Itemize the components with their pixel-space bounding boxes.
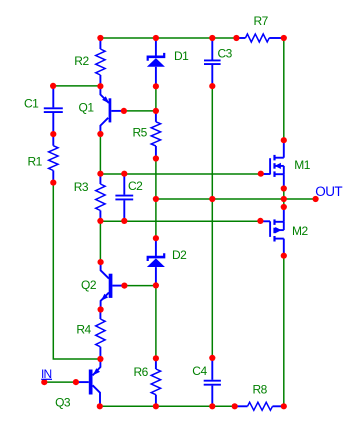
transistor Q3 (PNP, mirrored) [76,359,101,406]
node C2 top [121,171,127,177]
wire IN to Q3 base [44,381,76,383]
resistor R8 [235,405,248,407]
node R3 top [97,171,103,177]
wire C1 top to R2 bottom [53,85,100,87]
wire C3 bottom to C4 top [211,86,213,358]
svg-text:R8: R8 [253,383,268,397]
zener diode D1 [155,38,157,56]
node R8 left [232,403,238,409]
node OUT port [313,196,319,202]
node C1 top [50,83,56,89]
wire OUT rail [156,198,316,200]
MOSFET M2 (P-channel) [260,207,283,256]
node C3 bottom [209,83,215,89]
zener diode D2 [155,238,157,256]
svg-text:C3: C3 [218,47,233,61]
resistor R2 [99,38,101,49]
node C1 bottom / R1 top [50,131,56,137]
node C3 top [209,35,215,41]
svg-text:OUT: OUT [315,184,342,199]
node OUT rail at C column [209,196,215,202]
svg-text:D2: D2 [172,248,187,262]
wires group [44,38,315,406]
node Q3 collector [97,403,103,409]
MOSFET M1 (N-channel) [261,140,284,188]
node OUT rail at R5 column [153,196,159,202]
resistor R7 [236,37,245,39]
node M1 drain top [281,137,287,143]
transistor Q2 (NPN) [101,262,125,309]
node OUT rail at M column [281,196,287,202]
node C4 bottom [209,403,215,409]
resistor R4 [99,310,101,320]
resistor R6 [155,358,157,369]
resistor R3 [99,174,101,184]
svg-text:R7: R7 [254,14,269,28]
svg-text:M1: M1 [294,158,310,172]
svg-text:C2: C2 [128,179,143,193]
node D1 bottom [153,83,159,89]
svg-text:R1: R1 [28,155,43,169]
wire M1 source to M2 drain [283,189,285,208]
node R5 bottom [153,155,159,161]
capacitor C1 [52,86,54,108]
resistor R5 [155,111,157,122]
resistor R1 [52,134,54,146]
wire R1 bottom left branch down and right to R4 bottom [53,183,100,359]
node R6 top [153,355,159,361]
capacitor C2 [123,174,125,195]
wire R3 bottom to Q2 top [99,221,101,262]
node Q2 collector top [98,259,104,265]
wire M2 source down to R8 right [283,256,285,407]
capacitor C4 [211,358,213,380]
node M2 gate [257,218,263,224]
wire Q1 collector to R3 node [99,134,101,174]
svg-text:R5: R5 [133,126,148,140]
node R1 bottom [50,180,56,186]
node M2 drain [281,204,287,210]
node R7 right [281,35,287,41]
svg-text:R6: R6 [134,365,149,379]
svg-text:M2: M2 [292,224,308,238]
node D2 top [153,235,159,241]
svg-text:C4: C4 [192,364,207,378]
node D2 bottom [153,282,159,288]
node R3 bottom [97,218,103,224]
svg-text:R4: R4 [76,323,91,337]
capacitor C3 [211,38,213,60]
wire D1 bottom to R5 top [155,86,157,111]
wire bottom rail [100,405,235,407]
node M2 source [281,253,287,259]
wire R5 bottom down to OUT node [155,159,157,239]
svg-text:D1: D1 [174,49,189,63]
node Q2 base joint [121,283,127,289]
wire node173 horizontal to M1 gate [100,173,260,175]
node R6 bottom [153,403,159,409]
node R7 left [233,35,239,41]
wire top rail [100,37,236,39]
wire Q2 base to D2/R6 node [124,285,155,287]
node Q2 emitter / R4 top [98,306,104,312]
svg-text:Q3: Q3 [55,396,71,410]
transistor Q1 (PNP) [100,86,124,134]
node Q1 collector [97,131,103,137]
svg-text:R3: R3 [74,180,89,194]
wire R7 right down to M1 drain [283,38,285,140]
node IN port [41,379,47,385]
svg-text:C1: C1 [24,97,39,111]
wire node221 horizontal to M2 gate [100,220,260,222]
node R8 right [281,403,287,409]
node R2 top [97,35,103,41]
svg-text:R2: R2 [74,54,89,68]
node IN wire joint [73,379,79,385]
node C2 bottom [121,218,127,224]
node M1 gate [258,171,264,177]
svg-text:Q2: Q2 [81,278,97,292]
node R2 bottom / Q1 emitter [97,83,103,89]
wire Q1 base to D1/R5 node [124,110,156,112]
node R5 top [153,108,159,114]
node R4 bottom / Q3 emitter [97,356,103,362]
node C4 top [209,355,215,361]
node D1 top [153,35,159,41]
wire D2 bottom to R6 top [155,285,157,358]
node Q1 base joint [121,108,127,114]
svg-text:Q1: Q1 [79,101,95,115]
node M1 source [281,185,287,191]
